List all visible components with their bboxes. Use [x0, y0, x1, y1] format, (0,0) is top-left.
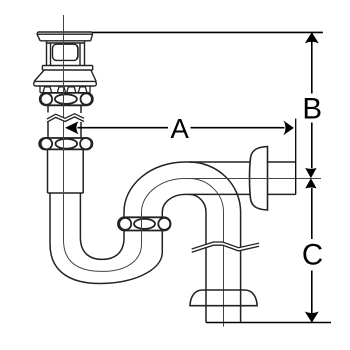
dimension bowtie arrows at outlet centerline — [305, 168, 316, 189]
centerline U-bend arc — [64, 240, 142, 271]
floor line — [206, 322, 331, 324]
floor flange dome — [190, 290, 257, 306]
riser-to-horizontal outer bend arc — [124, 162, 185, 212]
svg-text:B: B — [302, 93, 322, 126]
horizontal outlet pipe bottom wall — [185, 193, 296, 195]
riser-to-horizontal inner bend arc — [162, 194, 185, 212]
floor pipe break symbol — [192, 242, 259, 252]
floor pipe walls — [206, 212, 241, 323]
tailpiece pipe break symbol — [47, 114, 84, 123]
centerline elbow down arc — [189, 179, 224, 213]
scalloped locknut — [40, 86, 90, 93]
drain collar step — [42, 66, 92, 71]
horizontal outlet pipe top wall — [185, 161, 296, 163]
dimension A left arrowhead — [65, 121, 78, 134]
trap inlet hub below nut — [48, 149, 84, 194]
J-bend U outer arc — [50, 244, 162, 284]
tailpiece pipe walls — [48, 105, 81, 138]
pop-up drain body — [47, 41, 85, 66]
svg-text:A: A — [171, 113, 190, 144]
centerline horizontal outlet — [185, 178, 321, 180]
J-bend U inner arc — [80, 238, 124, 260]
dimension A right arrowhead — [283, 121, 294, 136]
slip nut 2 — [39, 138, 92, 149]
dimension A line — [78, 127, 285, 129]
trap slip nut — [118, 217, 171, 230]
centerline riser bend arc — [142, 179, 186, 213]
dimension B top arrowhead — [305, 32, 319, 43]
drain trumpet cone — [34, 70, 96, 81]
wall flange escutcheon — [250, 147, 268, 211]
dimension A extension line — [295, 119, 297, 195]
elbow-down outer arc — [189, 162, 241, 212]
drain flange top plate — [37, 32, 93, 41]
svg-text:C: C — [302, 239, 323, 272]
centerline floor pipe — [223, 212, 225, 327]
J-bend tube walls — [50, 193, 80, 244]
centerline vertical drain — [63, 15, 65, 240]
dimension C bottom arrowhead — [305, 312, 319, 323]
trumpet base plate — [34, 81, 97, 86]
centerline riser — [141, 212, 143, 244]
slip nut 1 — [40, 93, 93, 105]
elbow-down inner arc — [189, 194, 206, 212]
trap riser walls — [124, 212, 162, 252]
dimension B/C vertical line — [311, 32, 313, 322]
dimension: top extension line — [93, 31, 323, 33]
